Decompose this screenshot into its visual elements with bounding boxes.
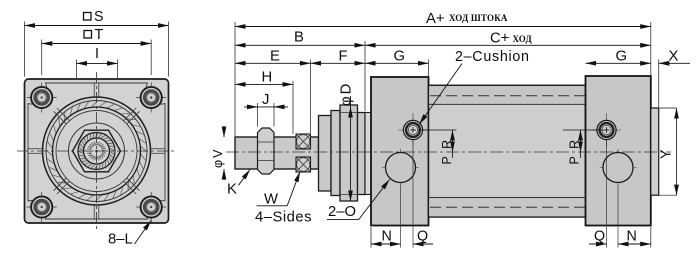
svg-text:T: T bbox=[95, 27, 104, 43]
svg-text:H: H bbox=[262, 70, 273, 86]
dimension J line bbox=[244, 106, 288, 108]
front cushion screw bbox=[399, 114, 428, 147]
extension line rear head face bbox=[650, 22, 652, 75]
svg-text:J: J bbox=[262, 92, 269, 108]
dimension T extension lines bbox=[41, 40, 43, 76]
front head bbox=[371, 77, 429, 226]
dimension Y bbox=[651, 107, 677, 109]
cylinder tube bbox=[429, 85, 586, 217]
svg-text:I: I bbox=[95, 46, 99, 62]
gland step 2 bbox=[331, 111, 340, 196]
dimension X bbox=[659, 62, 690, 64]
dimension N rear bbox=[618, 243, 651, 245]
label T bbox=[84, 31, 92, 39]
rod mounting nut bbox=[258, 128, 275, 174]
flange inner boss outline bbox=[28, 83, 165, 219]
svg-text:E: E bbox=[270, 49, 280, 65]
dimension B line bbox=[235, 44, 365, 46]
rear boss bbox=[651, 108, 659, 195]
rear port bbox=[600, 149, 637, 186]
dimension C line bbox=[365, 44, 651, 46]
svg-text:Q: Q bbox=[417, 229, 428, 245]
gland step 1 bbox=[319, 116, 332, 192]
svg-text:N: N bbox=[627, 229, 637, 245]
svg-text:N: N bbox=[382, 229, 392, 245]
extension line gland face bbox=[364, 41, 366, 111]
extension line front head face bbox=[428, 60, 430, 77]
dimension F line bbox=[311, 62, 366, 64]
front port bbox=[382, 149, 419, 186]
label S bbox=[84, 13, 92, 21]
svg-text:2–Cushion: 2–Cushion bbox=[455, 49, 530, 65]
svg-text:K: K bbox=[227, 182, 237, 198]
wrench flat upper bbox=[296, 134, 311, 149]
bolt hole bottom-left bbox=[27, 192, 57, 222]
bottom dims rear: ext lines bbox=[650, 227, 652, 248]
dimension PR rear bbox=[563, 129, 604, 131]
svg-text:S: S bbox=[94, 9, 104, 25]
extension line flats end bbox=[310, 60, 312, 134]
svg-text:4–Sides: 4–Sides bbox=[255, 210, 312, 226]
dimension T line bbox=[42, 43, 152, 45]
gland collar (D ring) bbox=[340, 105, 358, 201]
gasket plate bbox=[365, 113, 371, 195]
dimension A line bbox=[235, 26, 651, 28]
front flange plate bbox=[25, 79, 169, 223]
svg-text:G: G bbox=[616, 49, 628, 65]
cover outer ring circles bbox=[43, 97, 151, 205]
svg-text:2–O: 2–O bbox=[328, 204, 356, 220]
bottom dims front: ext lines bbox=[370, 227, 372, 248]
rear cushion screw bbox=[592, 114, 621, 147]
gland step 4 bbox=[358, 113, 366, 195]
bolt hole top-right bbox=[136, 83, 166, 113]
dimension N front bbox=[371, 243, 401, 245]
dimension PR front bbox=[418, 129, 457, 131]
svg-text:φV: φV bbox=[211, 148, 225, 168]
svg-text:P R: P R bbox=[568, 138, 582, 165]
svg-text:F: F bbox=[339, 49, 348, 65]
extension lines J bbox=[257, 103, 259, 127]
svg-text:Q: Q bbox=[594, 229, 605, 245]
radial ribs bbox=[28, 83, 165, 219]
piston rod circle bbox=[84, 138, 110, 164]
dimension S extension lines bbox=[24, 22, 26, 77]
dimension I extension lines bbox=[76, 60, 78, 79]
svg-text:ХОД ШТОКА: ХОД ШТОКА bbox=[449, 13, 508, 23]
nut thread circle bbox=[78, 133, 115, 170]
dimension phiV bbox=[223, 126, 225, 137]
rear head bbox=[586, 76, 651, 226]
dimension H line bbox=[235, 83, 293, 85]
piston rod bbox=[235, 137, 319, 169]
bolt hole bottom-right bbox=[136, 192, 166, 222]
bolt hole top-left bbox=[27, 83, 57, 113]
dimension S line bbox=[25, 25, 169, 27]
flange center crosshair bbox=[17, 150, 176, 152]
svg-text:8–L: 8–L bbox=[108, 232, 133, 248]
svg-text:W: W bbox=[264, 192, 278, 208]
extension line boss face bbox=[658, 60, 660, 108]
svg-text:Y: Y bbox=[659, 149, 675, 159]
wrench flat lower bbox=[296, 157, 311, 172]
boss circle bbox=[69, 123, 125, 179]
svg-text:G: G bbox=[394, 49, 406, 65]
svg-text:C+: C+ bbox=[490, 31, 509, 47]
dimension G front line bbox=[365, 62, 429, 64]
svg-text:φD: φD bbox=[339, 82, 355, 106]
dimension I line bbox=[77, 62, 118, 64]
extension line rod face bbox=[234, 22, 236, 136]
side view centerline bbox=[226, 151, 671, 153]
extension line H bbox=[292, 81, 294, 134]
dimension phiD bbox=[350, 107, 352, 201]
dimension E line bbox=[235, 62, 311, 64]
rod nut hexagon bbox=[73, 130, 121, 172]
svg-text:X: X bbox=[669, 49, 679, 65]
svg-text:ХОД: ХОД bbox=[513, 34, 533, 44]
svg-text:B: B bbox=[294, 30, 304, 46]
svg-text:A+: A+ bbox=[426, 11, 445, 27]
dimension Q rear bbox=[589, 243, 607, 245]
dimension Q front bbox=[413, 243, 433, 245]
tie rod hidden line bottom bbox=[430, 206, 586, 208]
svg-text:P R: P R bbox=[440, 138, 454, 165]
knurl hatch ring bbox=[47, 101, 147, 201]
tie rod hidden line top bbox=[430, 95, 586, 97]
dimension G rear line bbox=[586, 62, 651, 64]
